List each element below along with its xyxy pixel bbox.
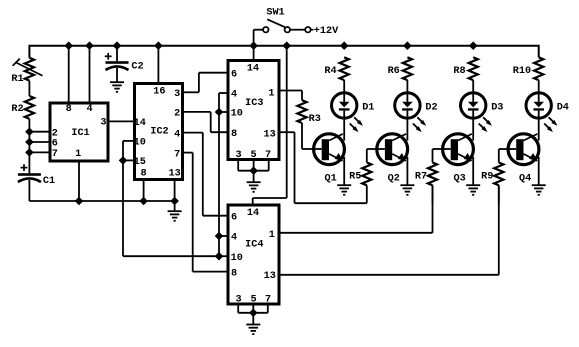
svg-text:SW1: SW1 [266,8,284,19]
svg-text:D1: D1 [362,102,374,113]
svg-text:D3: D3 [491,102,503,113]
svg-text:4: 4 [86,104,92,115]
svg-text:R2: R2 [11,104,23,115]
svg-text:10: 10 [231,109,243,120]
svg-text:4: 4 [174,129,180,140]
svg-text:2: 2 [174,109,180,120]
svg-text:R8: R8 [453,66,465,77]
svg-text:D2: D2 [425,102,437,113]
svg-text:8: 8 [231,129,237,140]
svg-text:8: 8 [141,168,147,179]
svg-text:Q4: Q4 [519,173,531,184]
svg-text:R9: R9 [481,171,493,182]
svg-text:1: 1 [75,149,81,160]
svg-text:7: 7 [265,295,271,306]
svg-text:10: 10 [134,138,146,149]
svg-text:+12V: +12V [314,26,339,37]
svg-text:7: 7 [174,149,180,160]
svg-text:R7: R7 [415,171,427,182]
svg-text:5: 5 [250,150,256,161]
svg-text:1: 1 [269,230,275,241]
svg-text:1: 1 [268,89,274,100]
svg-text:3: 3 [235,150,241,161]
svg-text:13: 13 [168,168,180,179]
svg-text:4: 4 [231,233,237,244]
svg-text:6: 6 [52,139,58,150]
svg-text:R3: R3 [309,114,321,125]
svg-text:16: 16 [153,86,165,97]
svg-text:8: 8 [66,104,72,115]
svg-text:IC1: IC1 [71,128,89,139]
svg-text:4: 4 [231,90,237,101]
svg-text:Q1: Q1 [324,173,336,184]
svg-text:IC3: IC3 [245,98,263,109]
svg-text:8: 8 [231,268,237,279]
svg-text:6: 6 [231,69,237,80]
svg-text:Q3: Q3 [453,173,465,184]
svg-text:14: 14 [247,208,259,219]
svg-text:IC2: IC2 [150,127,168,138]
svg-text:C1: C1 [43,176,55,187]
svg-text:7: 7 [265,150,271,161]
svg-text:14: 14 [134,118,146,129]
svg-text:7: 7 [52,149,58,160]
svg-text:10: 10 [231,253,243,264]
svg-text:3: 3 [100,117,106,128]
svg-text:Q2: Q2 [388,173,400,184]
svg-text:R4: R4 [324,66,336,77]
svg-text:3: 3 [174,89,180,100]
svg-text:R6: R6 [388,66,400,77]
svg-text:15: 15 [134,157,146,168]
svg-text:5: 5 [250,295,256,306]
svg-text:13: 13 [263,130,275,141]
svg-text:C2: C2 [131,62,143,73]
svg-text:6: 6 [231,212,237,223]
svg-text:13: 13 [264,271,276,282]
svg-text:R10: R10 [513,66,531,77]
svg-text:D4: D4 [557,102,569,113]
svg-text:R5: R5 [349,171,361,182]
svg-text:3: 3 [235,295,241,306]
svg-text:R1: R1 [11,74,23,85]
svg-text:IC4: IC4 [245,240,263,251]
svg-text:14: 14 [247,64,259,75]
